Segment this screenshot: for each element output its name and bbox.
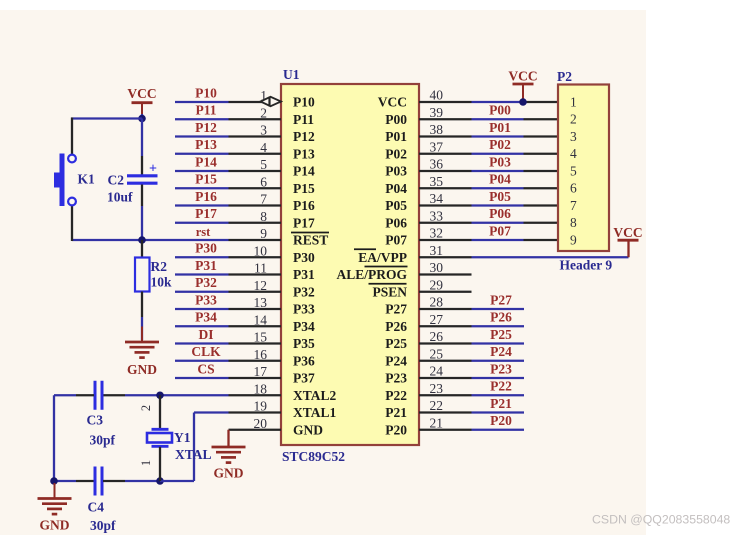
svg-text:P04: P04 — [385, 181, 407, 196]
svg-text:CS: CS — [197, 361, 214, 376]
svg-text:P17: P17 — [195, 206, 217, 221]
pin 15 wire row — [175, 327, 281, 345]
svg-text:DI: DI — [198, 327, 213, 342]
svg-text:10uf: 10uf — [107, 190, 133, 205]
wire XTAL1 net (row 19) — [194, 411, 229, 413]
pin 1 analog marker (diamond) — [261, 97, 282, 107]
pin 18 wire row — [229, 381, 282, 396]
svg-text:P02: P02 — [489, 137, 511, 152]
pin 30 wire row — [419, 260, 472, 275]
svg-text:P07: P07 — [489, 223, 511, 238]
svg-text:P26: P26 — [490, 310, 512, 325]
svg-text:19: 19 — [254, 399, 268, 414]
svg-text:GND: GND — [127, 362, 157, 377]
svg-text:Header 9: Header 9 — [560, 258, 613, 273]
svg-text:P21: P21 — [490, 396, 512, 411]
switch K1 — [54, 154, 76, 207]
svg-text:XTAL1: XTAL1 — [293, 405, 337, 420]
svg-text:P15: P15 — [293, 181, 315, 196]
wire left vertical — [53, 395, 55, 481]
svg-text:P31: P31 — [195, 258, 217, 273]
svg-text:P21: P21 — [385, 405, 407, 420]
pin 26 wire row — [419, 327, 524, 344]
svg-text:39: 39 — [430, 105, 444, 120]
overline on EA — [354, 248, 376, 250]
svg-text:C4: C4 — [88, 500, 105, 515]
wire bottom horizontal left — [54, 480, 76, 482]
svg-text:15: 15 — [254, 330, 268, 345]
svg-text:P16: P16 — [293, 198, 315, 213]
svg-text:P32: P32 — [195, 275, 217, 290]
wire VCC drop to junction — [141, 114, 143, 119]
svg-text:CLK: CLK — [191, 344, 221, 359]
svg-text:25: 25 — [430, 346, 444, 361]
pin 28 wire row — [419, 292, 524, 309]
pin 17 wire row — [175, 361, 281, 379]
svg-text:XTAL2: XTAL2 — [293, 388, 337, 403]
svg-text:31: 31 — [430, 243, 444, 258]
svg-text:CSDN @QQ2083558048: CSDN @QQ2083558048 — [592, 513, 730, 527]
pin 11 wire row — [175, 258, 281, 276]
svg-text:P10: P10 — [293, 95, 315, 110]
pin 2 wire row — [175, 103, 281, 121]
svg-text:8: 8 — [570, 215, 577, 230]
svg-text:P06: P06 — [385, 215, 407, 230]
svg-text:P05: P05 — [385, 198, 407, 213]
svg-text:9: 9 — [570, 232, 577, 247]
svg-text:34: 34 — [430, 191, 444, 206]
svg-text:P32: P32 — [293, 284, 315, 299]
crystal Y1 — [147, 395, 172, 481]
svg-text:P13: P13 — [195, 137, 217, 152]
pin 23 wire row — [419, 379, 524, 396]
svg-text:P12: P12 — [195, 120, 217, 135]
pin 27 wire row — [419, 310, 524, 327]
wire C2 upper lead — [141, 119, 143, 157]
pin 37 wire row — [419, 137, 558, 154]
svg-text:P22: P22 — [385, 388, 407, 403]
svg-text:33: 33 — [430, 208, 444, 223]
svg-text:P26: P26 — [385, 319, 407, 334]
svg-text:P01: P01 — [385, 129, 407, 144]
pin 24 wire row — [419, 361, 524, 378]
svg-text:STC89C52: STC89C52 — [282, 449, 345, 464]
svg-text:20: 20 — [254, 416, 268, 431]
svg-text:GND: GND — [293, 422, 323, 437]
svg-text:EA/VPP: EA/VPP — [358, 250, 407, 265]
svg-text:VCC: VCC — [508, 69, 537, 84]
junction bottom-left — [50, 477, 58, 485]
svg-text:+: + — [149, 162, 157, 177]
pin 40 wire row — [419, 88, 558, 103]
wire R2 top lead — [141, 240, 143, 258]
svg-text:C2: C2 — [108, 173, 125, 188]
svg-text:P03: P03 — [385, 164, 407, 179]
svg-text:23: 23 — [430, 381, 444, 396]
wire XTAL2 net (row 18) — [160, 394, 229, 396]
junction at VCC / K1 / C2 — [138, 115, 146, 123]
svg-text:37: 37 — [430, 139, 444, 154]
connector P2 Header 9 body — [558, 85, 609, 252]
svg-text:P33: P33 — [293, 302, 315, 317]
svg-text:Y1: Y1 — [174, 430, 191, 445]
pin 7 wire row — [175, 189, 281, 207]
svg-text:8: 8 — [260, 209, 267, 224]
wire row18 to C3 — [125, 394, 160, 396]
svg-text:3: 3 — [260, 123, 267, 138]
pin 25 wire row — [419, 344, 524, 361]
svg-text:P06: P06 — [489, 206, 511, 221]
power symbol VCC at x=142 — [127, 86, 156, 116]
svg-text:13: 13 — [254, 295, 268, 310]
wire GND drop (pin 20) — [227, 430, 229, 447]
svg-text:P10: P10 — [195, 85, 217, 100]
pin 22 wire row — [419, 396, 524, 413]
svg-text:4: 4 — [570, 146, 577, 161]
svg-text:P20: P20 — [385, 422, 407, 437]
svg-text:32: 32 — [430, 226, 444, 241]
svg-text:P25: P25 — [490, 327, 512, 342]
pin 29 wire row — [419, 277, 472, 292]
svg-text:11: 11 — [254, 261, 267, 276]
svg-text:27: 27 — [430, 312, 444, 327]
wire bottom to XTAL1 riser — [160, 480, 194, 482]
svg-text:7: 7 — [260, 192, 267, 207]
pin 39 wire row — [419, 103, 558, 120]
pin 12 wire row — [175, 275, 281, 293]
wire C4 right lead — [103, 480, 125, 482]
svg-text:rst: rst — [196, 225, 211, 239]
op IC U1 STC89C52 body — [281, 84, 419, 445]
svg-text:P36: P36 — [293, 353, 315, 368]
svg-text:P11: P11 — [195, 103, 216, 118]
svg-text:XTAL: XTAL — [175, 447, 212, 462]
svg-text:P07: P07 — [385, 233, 407, 248]
svg-text:40: 40 — [430, 88, 444, 103]
svg-text:P33: P33 — [195, 292, 217, 307]
capacitor C2 (polarized) — [127, 162, 158, 184]
svg-text:U1: U1 — [283, 67, 300, 82]
svg-text:24: 24 — [430, 364, 444, 379]
wire R2 bottom lead — [141, 292, 143, 318]
svg-text:38: 38 — [430, 122, 444, 137]
overline on REST — [291, 232, 329, 234]
wire C3 left lead — [54, 394, 76, 396]
svg-text:P27: P27 — [490, 292, 512, 307]
svg-text:18: 18 — [254, 381, 268, 396]
svg-text:7: 7 — [570, 198, 577, 213]
svg-text:P20: P20 — [490, 413, 512, 428]
ground symbol GND at x=54.5 — [38, 483, 72, 533]
pin 5 wire row — [175, 154, 281, 172]
svg-text:30pf: 30pf — [90, 518, 116, 533]
svg-text:GND: GND — [214, 466, 244, 481]
svg-text:P23: P23 — [385, 371, 407, 386]
capacitor C4 — [95, 467, 102, 496]
overline on PROG — [365, 266, 408, 268]
wire K1 lower lead — [71, 206, 73, 242]
svg-text:K1: K1 — [78, 172, 96, 187]
svg-text:28: 28 — [430, 295, 444, 310]
svg-text:1: 1 — [570, 94, 577, 109]
svg-text:10k: 10k — [151, 275, 173, 290]
svg-text:P00: P00 — [385, 112, 407, 127]
svg-text:2: 2 — [570, 112, 577, 127]
pin 33 wire row — [419, 206, 558, 223]
svg-text:P03: P03 — [489, 154, 511, 169]
junction XTAL2 / crystal top — [156, 391, 164, 399]
svg-text:P2: P2 — [557, 69, 572, 84]
junction at rst row — [138, 236, 146, 244]
svg-text:P27: P27 — [385, 302, 407, 317]
pin 19 wire row — [229, 399, 282, 414]
junction crystal bottom — [156, 477, 164, 485]
wire K1 upper lead — [71, 118, 73, 155]
svg-text:P30: P30 — [293, 250, 315, 265]
pin 10 wire row — [175, 241, 281, 259]
wire XTAL1 riser — [193, 413, 195, 482]
svg-text:16: 16 — [254, 347, 268, 362]
svg-text:30pf: 30pf — [90, 433, 116, 448]
svg-text:P22: P22 — [490, 379, 512, 394]
wire top horizontal to K1 — [71, 117, 142, 119]
power VCC on pin 31 net — [613, 225, 642, 257]
resistor R2 — [135, 258, 150, 292]
svg-text:GND: GND — [40, 518, 70, 533]
svg-text:35: 35 — [430, 174, 444, 189]
svg-text:12: 12 — [254, 278, 268, 293]
svg-text:P34: P34 — [293, 319, 315, 334]
svg-text:P15: P15 — [195, 172, 217, 187]
svg-text:P04: P04 — [489, 172, 511, 187]
svg-text:P14: P14 — [293, 164, 315, 179]
svg-text:P02: P02 — [385, 146, 407, 161]
pin 32 wire row — [419, 223, 558, 240]
pin 6 wire row — [175, 172, 281, 190]
pin 38 wire row — [419, 120, 558, 137]
svg-text:R2: R2 — [151, 259, 168, 274]
svg-text:VCC: VCC — [378, 95, 407, 110]
pin 13 wire row — [175, 292, 281, 310]
pin 14 wire row — [175, 310, 281, 328]
svg-text:6: 6 — [260, 174, 267, 189]
pin 35 wire row — [419, 172, 558, 189]
svg-text:P35: P35 — [293, 336, 315, 351]
svg-text:C3: C3 — [87, 413, 104, 428]
svg-text:P34: P34 — [195, 310, 217, 325]
capacitor C3 — [95, 381, 102, 410]
pin 34 wire row — [419, 189, 558, 206]
svg-text:P00: P00 — [489, 103, 511, 118]
pin 8 wire row — [175, 206, 281, 224]
svg-text:REST: REST — [293, 233, 328, 248]
svg-text:P23: P23 — [490, 361, 512, 376]
svg-text:22: 22 — [430, 398, 444, 413]
pin 36 wire row — [419, 154, 558, 171]
svg-text:36: 36 — [430, 157, 444, 172]
svg-text:9: 9 — [260, 226, 267, 241]
pin 31 wire row — [419, 243, 629, 258]
svg-text:P14: P14 — [195, 154, 217, 169]
svg-text:26: 26 — [430, 329, 444, 344]
svg-text:4: 4 — [260, 140, 267, 155]
svg-text:2: 2 — [139, 405, 153, 411]
svg-text:P05: P05 — [489, 189, 511, 204]
svg-text:29: 29 — [430, 277, 444, 292]
svg-text:PSEN: PSEN — [372, 284, 407, 299]
overline on PSEN — [369, 283, 407, 285]
svg-text:3: 3 — [570, 129, 577, 144]
ground symbol GND at x=142 — [125, 327, 159, 378]
svg-text:P37: P37 — [293, 371, 315, 386]
svg-text:VCC: VCC — [613, 225, 642, 240]
svg-text:VCC: VCC — [127, 86, 156, 101]
svg-text:P25: P25 — [385, 336, 407, 351]
pin 9 wire row — [72, 225, 281, 241]
svg-text:P30: P30 — [195, 241, 217, 256]
pin 1 wire row — [175, 85, 281, 103]
pin 4 wire row — [175, 137, 281, 155]
pin 3 wire row — [175, 120, 281, 138]
svg-text:5: 5 — [260, 157, 267, 172]
pin 20 wire row — [229, 416, 282, 431]
svg-text:P31: P31 — [293, 267, 315, 282]
svg-text:17: 17 — [254, 364, 268, 379]
svg-text:14: 14 — [254, 312, 268, 327]
svg-text:5: 5 — [570, 163, 577, 178]
svg-text:P11: P11 — [293, 112, 314, 127]
svg-text:30: 30 — [430, 260, 444, 275]
svg-text:P24: P24 — [385, 353, 407, 368]
ground symbol GND at x=228.5 — [212, 432, 246, 481]
svg-text:P13: P13 — [293, 146, 315, 161]
svg-text:P12: P12 — [293, 129, 315, 144]
svg-text:P16: P16 — [195, 189, 217, 204]
pin 16 wire row — [175, 344, 281, 362]
svg-text:21: 21 — [430, 415, 444, 430]
pin 21 wire row — [419, 413, 524, 430]
svg-text:P01: P01 — [489, 120, 511, 135]
svg-text:P17: P17 — [293, 215, 315, 230]
svg-text:6: 6 — [570, 181, 577, 196]
svg-text:P24: P24 — [490, 344, 512, 359]
svg-text:ALE/PROG: ALE/PROG — [336, 267, 407, 282]
wire C2 lower lead — [141, 185, 143, 207]
power symbol VCC at x=523 — [508, 69, 537, 103]
svg-text:1: 1 — [139, 460, 153, 466]
svg-text:10: 10 — [254, 243, 268, 258]
svg-text:2: 2 — [260, 105, 267, 120]
